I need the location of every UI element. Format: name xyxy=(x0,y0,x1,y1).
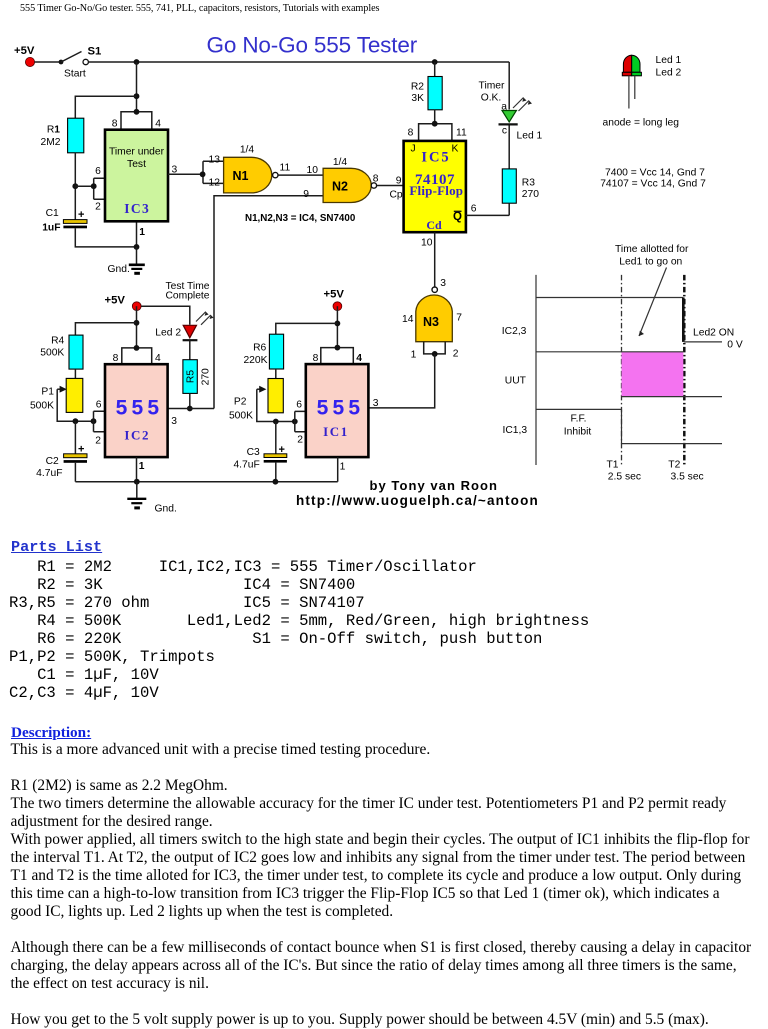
label Led2 ON / 0V xyxy=(693,328,743,351)
svg-text:Led1 to go on: Led1 to go on xyxy=(619,257,682,268)
svg-text:IC1: IC1 xyxy=(323,424,349,439)
svg-text:Start: Start xyxy=(64,69,86,80)
svg-text:2: 2 xyxy=(95,435,101,446)
svg-text:6: 6 xyxy=(471,204,477,215)
svg-text:N1,N2,N3 = IC4, SN7400: N1,N2,N3 = IC4, SN7400 xyxy=(245,213,356,224)
svg-text:Complete: Complete xyxy=(165,291,209,302)
svg-text:6: 6 xyxy=(95,166,101,177)
svg-text:T2: T2 xyxy=(668,459,680,470)
svg-text:1: 1 xyxy=(139,227,145,238)
svg-text:IC2,3: IC2,3 xyxy=(502,326,527,337)
svg-text:http://www.uoguelph.ca/~antoon: http://www.uoguelph.ca/~antoon xyxy=(296,493,539,508)
label Timer O.K. xyxy=(479,80,505,103)
note anode long leg xyxy=(603,117,680,128)
wire IC5 Q to R3 column xyxy=(466,204,509,216)
LED Led1 xyxy=(499,98,543,142)
svg-text:N1: N1 xyxy=(233,169,249,183)
svg-text:270: 270 xyxy=(522,189,539,200)
wire top rail xyxy=(89,61,510,63)
svg-text:J: J xyxy=(411,144,416,155)
IC1 supply bracket pins 8,4 xyxy=(313,345,363,364)
wire N2 lower input feedback xyxy=(214,189,323,409)
trimpot P1 xyxy=(30,378,94,421)
svg-text:R3: R3 xyxy=(522,178,535,189)
IC2 555 timer xyxy=(105,364,168,472)
wire R5 to IC2 pin3 xyxy=(168,393,214,426)
resistor R6 xyxy=(243,334,283,369)
svg-text:8: 8 xyxy=(112,118,118,129)
svg-text:IC2: IC2 xyxy=(124,427,150,442)
junction node top rail / R2 column xyxy=(432,59,438,65)
svg-text:anode = long leg: anode = long leg xyxy=(603,117,680,128)
svg-text:R4: R4 xyxy=(51,335,64,346)
wire node P2/C3 and IC1 pins 6,2 bracket xyxy=(273,400,306,446)
svg-text:P2: P2 xyxy=(234,396,247,407)
svg-text:10: 10 xyxy=(421,237,433,248)
svg-text:555: 555 xyxy=(116,396,164,419)
title Go No-Go 555 Tester xyxy=(207,33,418,58)
IC3 timer under test xyxy=(95,130,177,238)
note 7400 pinout xyxy=(600,167,706,189)
nand gate N1 xyxy=(224,145,291,193)
resistor R2 xyxy=(411,62,442,110)
trimpot P2 xyxy=(229,379,295,422)
svg-text:+5V: +5V xyxy=(324,289,345,301)
wire IC3 pin3 to N1 inputs xyxy=(168,154,224,188)
svg-text:74107 = Vcc 14, Gnd 7: 74107 = Vcc 14, Gnd 7 xyxy=(600,179,706,190)
wire +5V to switch xyxy=(35,61,60,63)
wire +5V to Led2 xyxy=(141,306,190,325)
wire N3 to IC1 pin3 xyxy=(368,354,434,408)
svg-text:1/4: 1/4 xyxy=(333,157,348,168)
svg-text:9: 9 xyxy=(303,189,309,200)
wire IC5 Cd to N3 xyxy=(421,232,435,287)
svg-text:Led 1: Led 1 xyxy=(656,55,682,66)
wire node to IC3 pins 6,2 bracket xyxy=(75,178,105,199)
svg-text:1: 1 xyxy=(139,461,145,472)
wire N1 out to N2 in xyxy=(278,165,323,176)
wire +5V down / branch R4 xyxy=(75,306,139,348)
svg-text:1/4: 1/4 xyxy=(240,145,255,156)
capacitor C1 xyxy=(42,208,87,234)
svg-text:Led 2: Led 2 xyxy=(656,68,682,79)
svg-text:O.K.: O.K. xyxy=(481,92,502,103)
magenta region UUT xyxy=(622,352,684,397)
wire N3 inputs bracket xyxy=(411,342,459,361)
svg-text:Timer: Timer xyxy=(479,80,505,91)
resistor R1 xyxy=(40,118,83,153)
svg-text:S1: S1 xyxy=(88,46,102,58)
trace UUT xyxy=(505,352,722,397)
svg-text:Cd: Cd xyxy=(426,218,442,232)
svg-text:R2: R2 xyxy=(411,81,424,92)
wire R2 to IC5 pins 8,11 bracket xyxy=(408,110,467,141)
capacitor C2 xyxy=(36,421,87,482)
svg-text:3: 3 xyxy=(440,278,446,289)
nand gate N3 (pointing up) xyxy=(402,278,462,342)
svg-text:500K: 500K xyxy=(30,401,54,412)
svg-text:9: 9 xyxy=(396,176,402,187)
wire N2 out to IC5 Cp xyxy=(377,176,404,201)
label F.F. Inhibit xyxy=(564,413,592,437)
svg-text:2: 2 xyxy=(95,202,101,213)
wire R3 to Q node xyxy=(508,203,510,215)
svg-text:500K: 500K xyxy=(229,410,253,421)
svg-text:0 V: 0 V xyxy=(727,339,743,350)
svg-text:C3: C3 xyxy=(247,447,260,458)
ground (bottom) xyxy=(127,482,177,515)
svg-text:220K: 220K xyxy=(243,355,267,366)
svg-text:by Tony van Roon: by Tony van Roon xyxy=(370,478,499,493)
svg-text:2: 2 xyxy=(453,349,459,360)
power +5V (top left) xyxy=(14,45,35,67)
svg-text:3: 3 xyxy=(373,398,379,409)
svg-text:c: c xyxy=(502,125,507,136)
wire R4 to P1 xyxy=(74,369,76,378)
timing T1 dash-dot line xyxy=(621,275,623,465)
svg-text:6: 6 xyxy=(96,400,102,411)
IC1 555 timer xyxy=(306,364,379,472)
svg-text:Time allotted for: Time allotted for xyxy=(615,244,689,255)
svg-text:Go No-Go 555 Tester: Go No-Go 555 Tester xyxy=(207,33,418,58)
svg-text:C2: C2 xyxy=(46,456,59,467)
switch S1 xyxy=(59,46,102,80)
svg-text:11: 11 xyxy=(280,162,291,173)
label time allotted xyxy=(615,244,689,268)
svg-text:270: 270 xyxy=(201,368,212,385)
label T1 2.5 sec xyxy=(607,459,642,482)
svg-text:8: 8 xyxy=(113,353,119,364)
svg-text:R1: R1 xyxy=(47,125,60,136)
IC3 pin1 wire xyxy=(134,221,140,250)
wire node P1/C2 and IC2 pins 6,2 bracket xyxy=(73,400,106,447)
svg-text:4: 4 xyxy=(356,353,362,364)
svg-text:UUT: UUT xyxy=(505,376,527,387)
resistor R4 xyxy=(40,335,83,369)
power +5V (IC1) xyxy=(324,289,345,311)
svg-text:C1: C1 xyxy=(46,208,59,219)
ground (IC3) xyxy=(108,247,145,275)
svg-text:Cp: Cp xyxy=(390,190,403,201)
wire R6 to P2 xyxy=(275,369,277,379)
svg-text:11: 11 xyxy=(456,128,467,139)
svg-text:8: 8 xyxy=(313,353,319,364)
wire Led1 to R3 xyxy=(508,126,510,169)
svg-text:IC3: IC3 xyxy=(124,201,150,216)
svg-text:Flip-Flop: Flip-Flop xyxy=(409,183,463,198)
svg-text:K: K xyxy=(452,144,459,155)
svg-text:Led2 ON: Led2 ON xyxy=(693,328,734,339)
svg-text:10: 10 xyxy=(307,165,319,176)
resistor R3 xyxy=(502,169,539,203)
nand gate N2 xyxy=(323,157,379,203)
svg-text:7: 7 xyxy=(456,313,462,324)
svg-text:Led 1: Led 1 xyxy=(517,130,543,141)
svg-text:Test: Test xyxy=(127,159,146,170)
capacitor C3 xyxy=(233,422,286,482)
svg-text:14: 14 xyxy=(402,314,414,325)
svg-text:4: 4 xyxy=(155,118,161,129)
svg-text:N3: N3 xyxy=(423,315,439,329)
svg-text:IC5: IC5 xyxy=(421,150,450,166)
svg-text:3K: 3K xyxy=(411,93,424,104)
svg-text:2: 2 xyxy=(297,435,303,446)
wire top rail down to Led1 xyxy=(508,62,510,110)
svg-text:8: 8 xyxy=(373,174,379,185)
svg-text:Timer under: Timer under xyxy=(109,146,165,157)
svg-text:Inhibit: Inhibit xyxy=(564,426,592,437)
timing diagram axis xyxy=(535,275,537,465)
svg-text:+5V: +5V xyxy=(14,45,35,57)
svg-text:13: 13 xyxy=(209,154,221,165)
trace IC2,3 xyxy=(502,298,722,342)
svg-text:12: 12 xyxy=(209,177,221,188)
svg-text:4.7uF: 4.7uF xyxy=(233,460,259,471)
note N1,N2,N3 = IC4 xyxy=(245,213,356,224)
svg-text:8: 8 xyxy=(408,128,414,139)
svg-text:1uF: 1uF xyxy=(42,223,60,234)
svg-text:IC1,3: IC1,3 xyxy=(503,425,528,436)
wire +5V down / branch R6 xyxy=(276,306,341,347)
svg-text:R5: R5 xyxy=(186,370,197,383)
svg-text:4: 4 xyxy=(155,353,161,364)
svg-text:6: 6 xyxy=(296,400,302,411)
wire C1 to ground run xyxy=(75,228,136,247)
arrow to magenta region xyxy=(639,268,667,337)
svg-text:3: 3 xyxy=(171,416,177,427)
svg-text:+5V: +5V xyxy=(105,294,126,306)
svg-text:555: 555 xyxy=(317,396,365,419)
wire R1 to C1 xyxy=(72,153,78,220)
svg-text:Gnd.: Gnd. xyxy=(108,264,130,275)
svg-text:Led 2: Led 2 xyxy=(155,328,181,339)
byline Tony van Roon xyxy=(296,478,539,508)
svg-text:2.5 sec: 2.5 sec xyxy=(608,472,641,483)
resistor R5 xyxy=(183,340,212,393)
wire branch to R1 xyxy=(75,96,136,118)
svg-text:Gnd.: Gnd. xyxy=(155,503,177,514)
label T2 3.5 sec xyxy=(668,459,703,482)
svg-text:1: 1 xyxy=(411,349,417,360)
svg-text:4.7uF: 4.7uF xyxy=(36,468,62,479)
svg-text:500K: 500K xyxy=(40,348,64,359)
svg-text:Q: Q xyxy=(453,211,462,223)
svg-text:2M2: 2M2 xyxy=(40,137,60,148)
svg-text:3.5 sec: 3.5 sec xyxy=(671,472,704,483)
LED Led2 xyxy=(155,312,213,341)
LED reference figure (Led1/Led2) xyxy=(622,55,681,109)
wire down to IC3 supply xyxy=(134,62,140,112)
svg-text:R6: R6 xyxy=(253,343,266,354)
svg-text:F.F.: F.F. xyxy=(570,413,586,424)
IC3 supply bracket pins 8,4 xyxy=(112,109,161,130)
label Test Time Complete xyxy=(165,281,209,302)
wire ground run bottom xyxy=(75,457,337,485)
junction node top rail / IC3 column xyxy=(134,59,140,65)
svg-text:T1: T1 xyxy=(607,459,619,470)
timing T2 dash-dot line xyxy=(683,275,686,465)
trace IC1,3 xyxy=(503,409,723,443)
svg-text:7400 = Vcc 14, Gnd 7: 7400 = Vcc 14, Gnd 7 xyxy=(605,167,705,178)
svg-text:1: 1 xyxy=(340,461,346,472)
IC5 74107 flip-flop xyxy=(404,141,466,232)
IC2 supply bracket pins 8,4 xyxy=(113,345,161,364)
svg-text:P1: P1 xyxy=(41,387,54,398)
power +5V (IC2) xyxy=(105,294,142,310)
svg-text:N2: N2 xyxy=(332,180,348,194)
